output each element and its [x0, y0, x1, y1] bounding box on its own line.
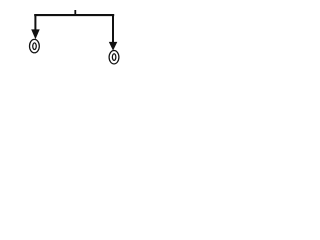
wire: top horizontal rail	[34, 14, 114, 16]
label 0: right net number	[112, 54, 116, 61]
wire: right vertical drop	[112, 14, 114, 42]
node stub: center tick on rail	[74, 10, 76, 15]
arrowhead: right terminal arrow	[109, 42, 118, 51]
label 0: left net number	[33, 43, 37, 50]
terminal circle: left oval	[30, 39, 40, 52]
wire: left vertical drop	[34, 14, 36, 30]
arrowhead: left terminal arrow	[31, 29, 40, 39]
terminal circle: right oval	[109, 51, 119, 64]
